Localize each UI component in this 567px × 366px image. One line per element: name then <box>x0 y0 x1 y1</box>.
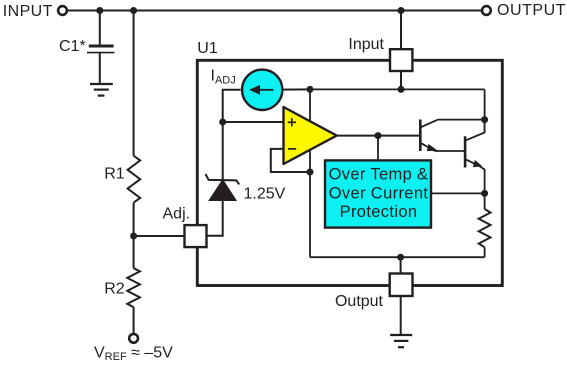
wire protection block to sense rail <box>431 192 485 194</box>
resistor sense (unlabeled) <box>479 209 491 247</box>
wire to protection block <box>377 136 379 161</box>
junction dot Q1 collector rail <box>481 116 488 123</box>
wire Q1 collector to rail <box>438 119 485 121</box>
op-amp error amplifier <box>284 107 337 164</box>
junction dot internal input rail <box>398 86 405 93</box>
inner output-stage box right edge upper segment <box>484 89 486 133</box>
inner output-stage box bottom edge <box>310 256 485 258</box>
wire R2 branch <box>133 236 135 268</box>
wire IADJ right to inner box <box>282 88 311 90</box>
wire Q2 emitter to sense rail <box>480 167 484 194</box>
svg-text:R1: R1 <box>104 165 125 182</box>
pin square Adj <box>185 225 207 247</box>
terminal VREF <box>129 334 138 343</box>
resistor R1 <box>128 156 141 203</box>
junction dot inner bottom output tap <box>397 254 404 261</box>
wire Q1 emitter to Q2 base <box>435 150 464 152</box>
wire zener anode to Adj pin <box>207 200 223 236</box>
svg-text:Over Temp &: Over Temp & <box>329 166 429 184</box>
svg-text:Input: Input <box>348 36 384 53</box>
inner output-stage box left edge <box>309 89 311 257</box>
wire inverting feedback <box>271 149 310 172</box>
svg-text:INPUT: INPUT <box>3 3 53 20</box>
wire Adj node to Adj pin <box>134 235 185 237</box>
svg-text:Protection: Protection <box>340 203 418 221</box>
current source IADJ <box>242 70 282 110</box>
svg-text:1.25V: 1.25V <box>244 186 286 203</box>
wire noninverting input <box>223 121 283 123</box>
transistor Q2 <box>465 120 485 168</box>
junction dot C1 tap <box>96 7 103 14</box>
wire sense node to resistor <box>484 193 486 209</box>
junction dot inner top-left corner <box>307 86 314 93</box>
svg-text:C1*: C1* <box>59 38 86 55</box>
junction dot noninverting node <box>219 119 226 126</box>
svg-text:Over Current: Over Current <box>329 184 429 202</box>
capacitor C1 <box>87 46 115 53</box>
ground for Output <box>390 335 412 347</box>
svg-text:Adj.: Adj. <box>163 205 191 222</box>
wire Output pin to ground <box>400 296 402 335</box>
protection block Over Temp / Over Current <box>325 160 431 227</box>
wire top rail INPUT to OUTPUT <box>67 10 482 12</box>
wire R1 branch <box>133 11 135 156</box>
pin square Output <box>390 274 413 297</box>
terminal INPUT <box>58 6 67 15</box>
junction dot feedback on inner box <box>307 169 314 176</box>
wire IADJ left to zener rail <box>223 90 241 122</box>
wire zener cathode rail <box>222 122 224 180</box>
svg-text:R2: R2 <box>104 281 125 298</box>
wire inner box to Output pin <box>400 257 402 274</box>
wire C1 branch <box>99 11 101 46</box>
wire op-amp output to Q1 base <box>337 135 420 137</box>
U1 regulator box <box>197 60 502 285</box>
junction dot U1 input tap <box>398 7 405 14</box>
junction dot sense node <box>481 190 488 197</box>
resistor R2 <box>127 268 140 307</box>
wire top rail to Input pin <box>400 11 402 51</box>
wire R1 to Adj node <box>133 203 135 236</box>
wire Input pin to internal rail <box>400 71 402 89</box>
inner output-stage box top edge <box>310 88 485 90</box>
wire R2 to VREF terminal <box>133 307 135 334</box>
svg-text:U1: U1 <box>197 40 218 57</box>
zener diode D1 1.25V <box>206 174 240 200</box>
junction dot op-amp output <box>375 132 382 139</box>
wire sense resistor to inner box bottom <box>484 247 486 257</box>
svg-text:Output: Output <box>335 293 384 310</box>
svg-text:OUTPUT: OUTPUT <box>497 2 566 19</box>
junction node Adj tap <box>130 233 137 240</box>
terminal OUTPUT <box>482 6 491 15</box>
junction dot R1 tap <box>130 7 137 14</box>
transistor Q1 <box>420 120 438 152</box>
ground for C1 <box>90 84 113 96</box>
pin square Input <box>390 49 412 71</box>
wire C1 to ground <box>99 53 101 84</box>
